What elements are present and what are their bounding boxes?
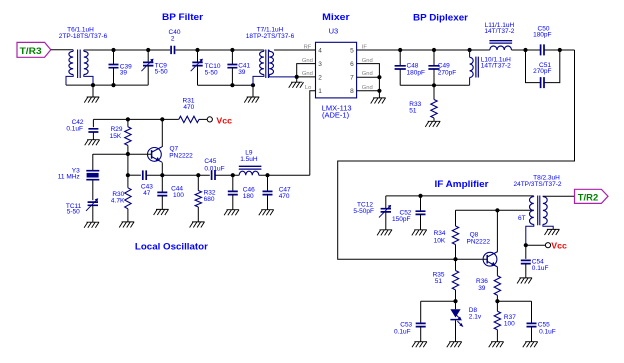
ground at C54 (517, 278, 532, 284)
svg-text:5-50: 5-50 (155, 68, 168, 75)
svg-text:5-50: 5-50 (67, 208, 80, 215)
heading IF Amplifier (435, 179, 489, 189)
svg-text:2: 2 (171, 36, 175, 43)
node pin 7 junction (377, 75, 381, 79)
node R35 D8 junction (453, 299, 457, 303)
wire Vcc stub IF amp (526, 244, 546, 246)
svg-text:51: 51 (435, 278, 443, 285)
port tag T/R2 (575, 189, 609, 203)
svg-text:Vcc: Vcc (216, 115, 232, 125)
resistor R37 (494, 301, 500, 342)
svg-text:1.5uH: 1.5uH (240, 156, 258, 163)
node pin 8 junction (377, 89, 381, 93)
wire emitter line left (128, 174, 141, 176)
label 6T tap (518, 215, 526, 222)
svg-text:U3: U3 (329, 26, 339, 35)
svg-text:PN2222: PN2222 (467, 239, 491, 246)
svg-text:C48: C48 (407, 62, 419, 69)
ground at T7 (244, 85, 259, 102)
pin number 7 (350, 74, 354, 81)
pin label Lo (305, 85, 311, 91)
label C44 (171, 185, 184, 199)
svg-text:Q7: Q7 (170, 145, 179, 152)
wire diplexer output to IF amp (338, 50, 575, 259)
node C44 junction (160, 173, 164, 177)
pin number 1 (318, 88, 322, 95)
resistor R31 (179, 116, 199, 122)
transformer T7 primary winding (253, 50, 264, 85)
ground at T8 secondary (545, 228, 560, 235)
ground at TC12 (377, 230, 392, 236)
svg-text:2TP-18TS/T37-6: 2TP-18TS/T37-6 (59, 33, 108, 40)
pin number 8 (350, 88, 354, 95)
svg-text:18TP-2TS/T37-6: 18TP-2TS/T37-6 (246, 33, 295, 40)
svg-text:0.1uF: 0.1uF (532, 265, 549, 272)
svg-text:(ADE-1): (ADE-1) (322, 110, 350, 119)
node ground junction T6 (91, 83, 95, 87)
node R33 top (432, 83, 436, 87)
pin number 2 (318, 74, 322, 81)
node ground junction T7 (251, 83, 255, 87)
ground at R37 (489, 342, 504, 348)
label C55 (538, 321, 556, 335)
svg-text:6: 6 (350, 61, 354, 68)
svg-text:39: 39 (478, 285, 486, 292)
capacitor C49 (428, 50, 439, 85)
node collector junction (495, 208, 499, 212)
wire BP filter bottom rail left (66, 84, 148, 86)
wire RF pin 4 (274, 49, 316, 51)
mixer U1 box LMX-113 (316, 42, 357, 98)
label R32 (204, 189, 216, 203)
svg-text:180pF: 180pF (407, 69, 425, 76)
node C49 top (432, 48, 436, 52)
capacitor C47 (263, 175, 273, 210)
wire IF pin 5 to diplexer (357, 49, 401, 51)
node C50 right junction (558, 48, 562, 52)
pin label IF (362, 44, 368, 50)
ground at TC11 (84, 222, 99, 228)
diode D8 LED (450, 301, 463, 342)
heading Mixer (322, 12, 350, 22)
svg-text:8: 8 (350, 88, 354, 95)
transformer T8 core (538, 196, 540, 226)
capacitor C48 (395, 50, 406, 85)
pin number 5 (350, 47, 354, 54)
label T8 (513, 175, 561, 188)
label C52 (392, 210, 412, 223)
wire base to R30 (127, 154, 129, 188)
heading Local Oscillator (135, 242, 208, 252)
capacitor C39 (109, 50, 119, 85)
capacitor C50 (541, 44, 544, 55)
svg-text:Gnd: Gnd (302, 71, 313, 77)
label R33 (409, 101, 421, 115)
resistor R30 (125, 188, 131, 222)
svg-text:Gnd: Gnd (362, 58, 373, 64)
node C47 junction (265, 173, 269, 177)
svg-text:11 MHz: 11 MHz (58, 174, 80, 181)
trimmer capacitor TC10 (191, 50, 203, 85)
svg-text:C45: C45 (204, 158, 216, 165)
label C49 (438, 62, 456, 76)
svg-text:IF Amplifier: IF Amplifier (435, 179, 489, 189)
label C43 (141, 183, 153, 197)
wire collector tap line (456, 209, 534, 211)
wire Q8 emitter (496, 267, 498, 276)
transistor Q7 PN2222 (148, 147, 163, 162)
label R34 (434, 230, 446, 244)
inductor L10 core (476, 57, 478, 78)
label C50 (533, 26, 551, 39)
label R31 (183, 98, 195, 111)
transformer T7 core (266, 50, 269, 79)
svg-text:470: 470 (279, 193, 290, 200)
capacitor C43 (143, 170, 146, 180)
label LMX-113 (322, 104, 352, 120)
label TC10 (205, 63, 221, 77)
label D8 (469, 307, 482, 321)
ground at C46 (224, 210, 239, 216)
resistor R34 (452, 210, 458, 259)
svg-text:2: 2 (318, 74, 322, 81)
svg-text:10K: 10K (434, 237, 446, 244)
resistor R29 (125, 119, 131, 154)
resistor R35 (452, 259, 458, 301)
wire Q7 collector (161, 119, 163, 147)
svg-text:15K: 15K (110, 133, 122, 140)
svg-text:0.01uF: 0.01uF (204, 166, 224, 173)
wire diplexer bottom rail (400, 84, 469, 86)
transformer T7 secondary winding (269, 50, 297, 77)
node R29 top (126, 117, 130, 121)
transistor Q8 PN2222 (483, 252, 498, 267)
label C39 (120, 63, 132, 76)
capacitor C45 (212, 170, 215, 180)
transformer T8 primary winding (526, 196, 534, 245)
transformer T6 core (78, 50, 81, 79)
label Y3 (58, 168, 80, 181)
wire Gnd pin 7 (357, 76, 380, 78)
label R36 (476, 278, 488, 292)
wire collector (496, 210, 498, 251)
node C41 bottom (230, 83, 234, 87)
inductor L11 (490, 46, 512, 50)
ground at C44 (154, 209, 169, 215)
wire C51 branch (526, 50, 560, 83)
wire Q7 emitter (161, 162, 163, 175)
inductor L10 (470, 50, 474, 85)
svg-text:Lo: Lo (305, 85, 311, 91)
wire BP filter bottom rail right (198, 84, 254, 86)
pin number 4 (318, 47, 322, 54)
label R29 (110, 126, 123, 140)
wire IF amp tank rail (386, 195, 534, 197)
resistor R36 (494, 276, 500, 301)
node C50 left junction (523, 48, 527, 52)
pin number 3 (318, 61, 322, 68)
inductor L11 core (489, 41, 512, 43)
label U3 (329, 26, 339, 35)
label T6 (59, 27, 108, 41)
svg-text:39: 39 (238, 69, 246, 76)
ground at D8 (447, 342, 462, 348)
svg-text:51: 51 (409, 108, 417, 115)
label T7 (246, 27, 295, 41)
ground at C52 (412, 230, 427, 236)
label C48 (407, 62, 425, 76)
inductor L9 core (239, 166, 262, 169)
node Vcc junction IF amp (524, 243, 528, 247)
svg-text:5-50pF: 5-50pF (353, 208, 374, 215)
node TC10 top (195, 48, 199, 52)
trimmer capacitor TC9 (141, 50, 153, 85)
Vcc terminal LO (207, 115, 232, 125)
capacitor C53 (416, 301, 426, 342)
trimmer capacitor TC12 (379, 196, 391, 230)
label TC9 (155, 63, 168, 76)
pin label RF (304, 44, 312, 50)
pin label Gnd pin6 (362, 58, 373, 64)
ground at T6 (84, 85, 99, 103)
label C51 (533, 62, 551, 75)
svg-text:1: 1 (318, 88, 322, 95)
node R29 bottom (126, 152, 130, 156)
svg-text:470: 470 (183, 104, 194, 111)
svg-text:14T/T37-2: 14T/T37-2 (481, 62, 511, 69)
port tag T/R3 (17, 42, 51, 57)
label C40 (169, 29, 181, 43)
wire BP filter top rail mid (175, 49, 264, 51)
label C53 (394, 321, 413, 335)
label C45 (204, 158, 224, 173)
label Q7 (169, 145, 193, 159)
svg-text:R34: R34 (434, 230, 446, 237)
svg-text:0.1uF: 0.1uF (539, 328, 556, 335)
wire BP filter top rail left (84, 49, 170, 51)
svg-text:T/R2: T/R2 (578, 192, 598, 202)
node C43 left junction (126, 173, 130, 177)
node C48 top (398, 48, 402, 52)
node L10 top (468, 48, 472, 52)
svg-text:39: 39 (120, 70, 128, 77)
node C39 bottom (111, 83, 115, 87)
wire diplexer top rail (400, 49, 490, 51)
label R37 (504, 314, 516, 328)
svg-text:180pF: 180pF (533, 32, 551, 39)
Vcc terminal IF amp (545, 240, 567, 250)
label TC11 (66, 203, 82, 216)
svg-text:C49: C49 (438, 62, 450, 69)
node C46 junction (231, 173, 235, 177)
label TC12 (353, 202, 374, 215)
label Q8 (467, 232, 491, 246)
svg-text:BP Filter: BP Filter (162, 12, 203, 22)
node mixer left ground junction (295, 75, 299, 79)
ground at R30 (119, 222, 134, 228)
capacitor C55 (527, 301, 537, 342)
svg-text:PN2222: PN2222 (169, 152, 193, 159)
capacitor C44 (157, 175, 167, 209)
label R30 (111, 191, 125, 205)
ground at C47 (259, 210, 274, 216)
ground at R32 (190, 222, 205, 228)
capacitor C41 (227, 50, 237, 85)
resistor R33 (431, 85, 437, 121)
svg-text:180: 180 (243, 193, 254, 200)
label C46 (243, 186, 255, 200)
wire Gnd pin 6 (357, 64, 380, 91)
capacitor C52 (416, 196, 426, 230)
ground at mixer pins 6-8 (371, 91, 386, 104)
svg-text:Gnd: Gnd (362, 71, 373, 77)
pin number 6 (350, 61, 354, 68)
svg-text:270pF: 270pF (533, 68, 551, 75)
svg-text:Mixer: Mixer (322, 12, 350, 22)
capacitor C42 (88, 119, 98, 139)
pin label Gnd pin7 (362, 71, 373, 77)
heading BP Filter (162, 12, 203, 22)
node C39 top (111, 48, 115, 52)
wire T/R3 to T6 (51, 49, 73, 51)
label L11 (484, 22, 514, 35)
svg-text:2.1v: 2.1v (469, 314, 482, 321)
label C47 (279, 186, 291, 200)
wire emitter line mid (146, 174, 210, 176)
label C41 (238, 62, 250, 76)
trimmer capacitor TC11 (86, 198, 98, 222)
svg-text:270pF: 270pF (438, 70, 456, 77)
wire Lo pin 1 (310, 91, 316, 175)
wire R36 junction to C55 (497, 300, 531, 302)
label L10 (481, 56, 511, 69)
wire Gnd pin 8 (357, 90, 380, 92)
svg-text:4: 4 (318, 47, 322, 54)
svg-text:150pF: 150pF (392, 216, 410, 223)
transformer T6 primary winding (66, 50, 73, 85)
label R35 (433, 272, 445, 286)
svg-text:BP Diplexer: BP Diplexer (413, 13, 468, 23)
svg-text:7: 7 (350, 74, 354, 81)
ground at C53 (412, 342, 427, 348)
capacitor C51 (541, 77, 544, 88)
svg-text:680: 680 (204, 196, 215, 203)
svg-text:6T: 6T (518, 215, 526, 222)
transformer T6 secondary winding (84, 50, 93, 85)
wire Gnd pin 3 (297, 64, 316, 77)
svg-text:4.7K: 4.7K (111, 197, 125, 204)
svg-text:IF: IF (362, 44, 368, 50)
capacitor C54 (521, 245, 531, 278)
wire T8 to T/R2 (543, 195, 575, 197)
transformer T8 secondary winding (543, 196, 553, 229)
svg-text:100: 100 (504, 321, 515, 328)
label L9 (240, 149, 258, 163)
svg-text:47: 47 (143, 190, 151, 197)
wire LO base line (93, 153, 152, 155)
label C42 (66, 119, 83, 132)
svg-text:Gnd: Gnd (362, 85, 373, 91)
svg-text:5: 5 (350, 47, 354, 54)
label C54 (532, 259, 549, 272)
ground at R33 (425, 121, 440, 127)
wire C50 to corner (544, 49, 574, 51)
ground at mixer pins 2-3 (289, 77, 304, 88)
resistor R32 (195, 175, 201, 222)
svg-text:0.1uF: 0.1uF (66, 126, 83, 133)
pin label Gnd pin8 (362, 85, 373, 91)
ground at C42 (85, 140, 100, 146)
wire L9 to mixer Lo (259, 174, 310, 176)
inductor L9 (239, 171, 259, 175)
wire L11 to C50 (512, 49, 541, 51)
pin label Gnd pin2 (302, 71, 313, 77)
pin label Gnd pin3 (302, 58, 313, 64)
heading BP Diplexer (413, 13, 468, 23)
svg-text:3: 3 (318, 61, 322, 68)
wire R31 to Vcc (199, 118, 207, 120)
svg-text:0.1uF: 0.1uF (394, 328, 411, 335)
wire C45 to L9 (215, 174, 239, 176)
node R36 R37 junction (495, 299, 499, 303)
node R32 junction (196, 173, 200, 177)
crystal Y3 (86, 154, 99, 200)
svg-text:14T/T37-2: 14T/T37-2 (484, 28, 514, 35)
svg-text:RF: RF (304, 44, 312, 50)
svg-text:Vcc: Vcc (551, 240, 567, 250)
svg-text:5-50: 5-50 (205, 70, 218, 77)
capacitor C40 (171, 46, 174, 54)
node TC9 top (146, 48, 150, 52)
node C52 top (418, 194, 422, 198)
svg-text:T/R3: T/R3 (20, 46, 42, 56)
wire C53 branch (421, 300, 456, 302)
wire LO Vcc rail (93, 118, 178, 120)
svg-text:Local Oscillator: Local Oscillator (135, 242, 208, 252)
svg-text:24TP/3TS/T37-2: 24TP/3TS/T37-2 (513, 181, 561, 188)
capacitor C46 (228, 175, 238, 210)
node base junction R35 (453, 257, 457, 261)
node C41 top (230, 48, 234, 52)
node Q7 collector junction (160, 117, 164, 121)
svg-text:100: 100 (173, 192, 184, 199)
wire Gnd pin 2 (297, 76, 316, 78)
svg-text:Gnd: Gnd (302, 58, 313, 64)
ground at C55 (523, 342, 538, 348)
